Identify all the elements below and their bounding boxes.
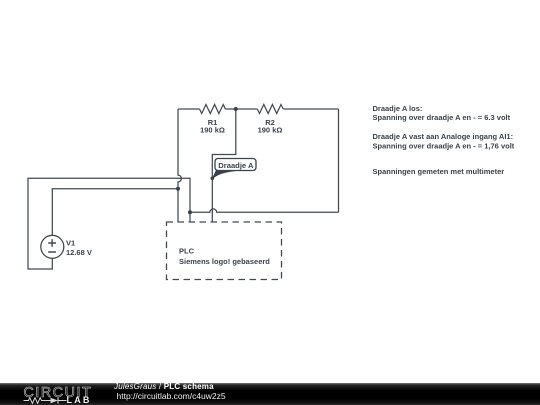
svg-text:Siemens logo! gebaseerd: Siemens logo! gebaseerd [179,257,270,266]
wire top right [283,108,338,110]
junction node bottom wire [188,210,192,214]
svg-text:PLC: PLC [179,247,195,256]
svg-text:Spanningen gemeten met multime: Spanningen gemeten met multimeter [373,167,505,176]
wire bottom with hop [190,209,339,212]
wire top lead left [178,108,200,110]
svg-text:Spanning over draadje A en - =: Spanning over draadje A en - = 1,76 volt [373,142,515,151]
svg-text:Spanning over draadje A en - =: Spanning over draadje A en - = 6.3 volt [373,113,511,122]
voltage source V1 [41,235,64,258]
footer logo [0,383,100,405]
svg-text:190 kΩ: 190 kΩ [200,126,225,135]
junction node R1-R2 [234,107,238,111]
wire between R1 and R2 [225,108,257,110]
svg-text:Draadje A los:: Draadje A los: [373,104,423,113]
wire Draadje A: R1-R2 junction down into PLC [212,109,236,222]
callout node dot [211,177,215,181]
logo diode symbol [51,398,59,404]
footer byline [114,382,214,391]
PLC dashed box [167,222,282,280]
resistor R1 [200,105,226,114]
callout Draadje A box [215,159,256,171]
svg-text:190 kΩ: 190 kΩ [258,126,283,135]
footer bar [0,383,540,405]
callout Draadje A tail [212,170,235,178]
junction node wireB-left vertical [176,187,180,191]
wire left vertical with hop [178,109,181,222]
footer url [117,392,226,401]
wire right side [338,109,340,212]
logo resistor squiggle [24,398,51,404]
svg-text:Draadje A: Draadje A [218,161,254,170]
resistor R2 [257,105,283,114]
wire B: V1 plus to left vertical [52,189,178,236]
svg-text:12.68 V: 12.68 V [66,248,92,257]
svg-text:Draadje A vast aan Analoge ing: Draadje A vast aan Analoge ingang AI1: [373,132,514,141]
wire from bottom junction into PLC [189,212,191,222]
wire A: V1 minus to bottom junction [28,178,190,269]
svg-text:LAB: LAB [67,395,92,405]
svg-text:V1: V1 [66,239,75,248]
